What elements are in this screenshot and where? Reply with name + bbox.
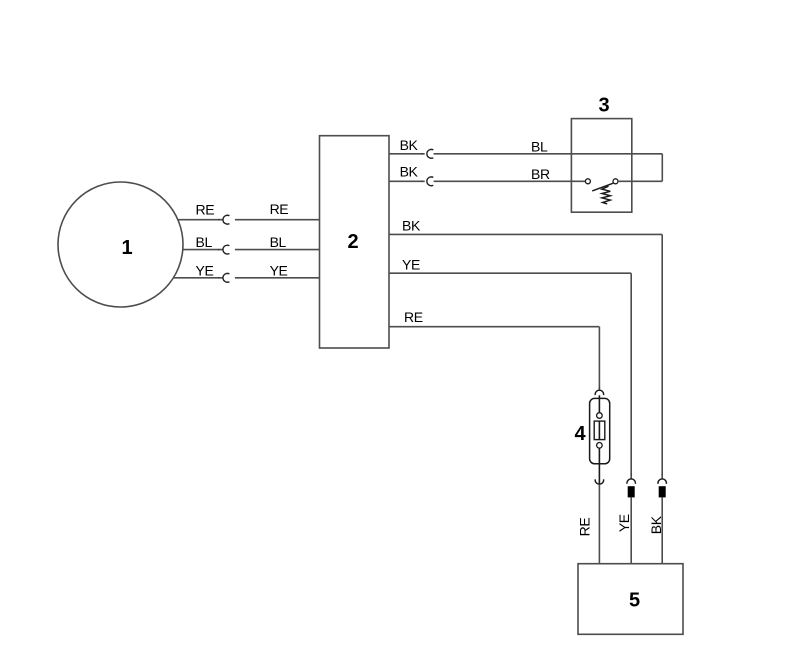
wire BL to component 3 (passes through box)	[434, 153, 663, 155]
wire YE to component 2	[235, 277, 320, 279]
svg-text:4: 4	[574, 423, 586, 445]
connector pin dot BL (1-2)	[218, 249, 220, 251]
component 1: magneto/generator circle	[58, 182, 183, 307]
fuse inner link line	[598, 421, 600, 440]
wire BK into component 5	[661, 497, 663, 563]
svg-text:BL: BL	[531, 139, 548, 155]
wire RE from component 1	[178, 219, 223, 221]
wire BL to component 2	[235, 249, 320, 251]
svg-text:BL: BL	[196, 234, 213, 250]
connector pin dot above fuse	[599, 387, 601, 389]
fuse bottom terminal circle	[597, 443, 603, 449]
wire BK vertical down to connector	[661, 234, 663, 479]
svg-text:BK: BK	[400, 137, 419, 153]
wire RE into component 5	[598, 485, 600, 564]
connector pin dot BK (above 5)	[661, 473, 663, 475]
component 2: CDI unit box	[320, 136, 390, 348]
svg-text:YE: YE	[616, 514, 632, 532]
wire RE vertical down to fuse	[598, 327, 600, 391]
svg-text:RE: RE	[270, 201, 289, 217]
svg-text:YE: YE	[270, 262, 288, 278]
wire BK (2 to 3, lower)	[389, 180, 425, 182]
connector socket BK (above 5)	[658, 479, 667, 484]
switch blade	[592, 183, 613, 191]
svg-text:BK: BK	[400, 164, 419, 180]
svg-text:YE: YE	[402, 257, 420, 273]
svg-text:YE: YE	[196, 262, 214, 278]
fuse top terminal circle	[597, 413, 603, 419]
connector pin dot BK lower	[421, 180, 423, 182]
svg-text:BL: BL	[270, 234, 287, 250]
wire from fuse bottom	[598, 448, 600, 483]
switch return spring	[602, 186, 610, 204]
wire BR to switch contact	[434, 180, 586, 182]
connector pin dot RE (1-2)	[218, 219, 220, 221]
connector socket BK lower	[427, 177, 433, 186]
connector socket YE (1-2)	[223, 273, 229, 282]
wire YE (2 to 5) horizontal	[389, 272, 631, 274]
svg-text:3: 3	[598, 94, 609, 116]
wire loop vertical right of component 3	[661, 154, 663, 182]
wire BK (2 to 3, upper)	[389, 153, 425, 155]
component 5: load box	[578, 564, 683, 635]
svg-text:2: 2	[347, 231, 358, 253]
connector pin dot YE (above 5)	[630, 473, 632, 475]
svg-text:1: 1	[121, 237, 132, 259]
wire YE from component 1	[173, 277, 223, 279]
component 4: fuse body	[590, 398, 610, 463]
svg-text:RE: RE	[404, 309, 423, 325]
component 3: switch box	[571, 119, 631, 213]
connector bullet BK	[659, 486, 666, 497]
svg-text:RE: RE	[196, 201, 215, 217]
switch contact right	[613, 179, 618, 184]
wire YE vertical down to connector	[630, 273, 632, 479]
svg-text:BR: BR	[531, 166, 550, 182]
connector socket RE (1-2)	[223, 215, 229, 224]
wire RE to component 2	[235, 219, 320, 221]
svg-text:BK: BK	[402, 218, 421, 234]
connector pin dot YE (1-2)	[218, 277, 220, 279]
switch contact left	[585, 179, 590, 184]
svg-text:BK: BK	[648, 515, 664, 534]
wire BK (2 to 5) horizontal	[389, 233, 662, 235]
wire YE into component 5	[630, 497, 632, 563]
connector socket BL (1-2)	[223, 245, 229, 254]
svg-text:RE: RE	[576, 518, 592, 537]
wire BL from component 1	[183, 249, 223, 251]
connector socket below fuse	[595, 479, 603, 484]
connector socket YE (above 5)	[627, 479, 636, 484]
fuse element rectangle	[594, 421, 605, 440]
connector socket BK upper	[427, 149, 433, 158]
wire into fuse top	[598, 395, 600, 412]
wire from switch right contact to loop	[618, 180, 662, 182]
connector socket above fuse	[595, 390, 603, 395]
svg-text:5: 5	[629, 590, 640, 612]
connector pin dot BK upper	[421, 153, 423, 155]
wire RE (2 to 4) horizontal	[389, 326, 599, 328]
connector bullet YE	[628, 486, 635, 497]
